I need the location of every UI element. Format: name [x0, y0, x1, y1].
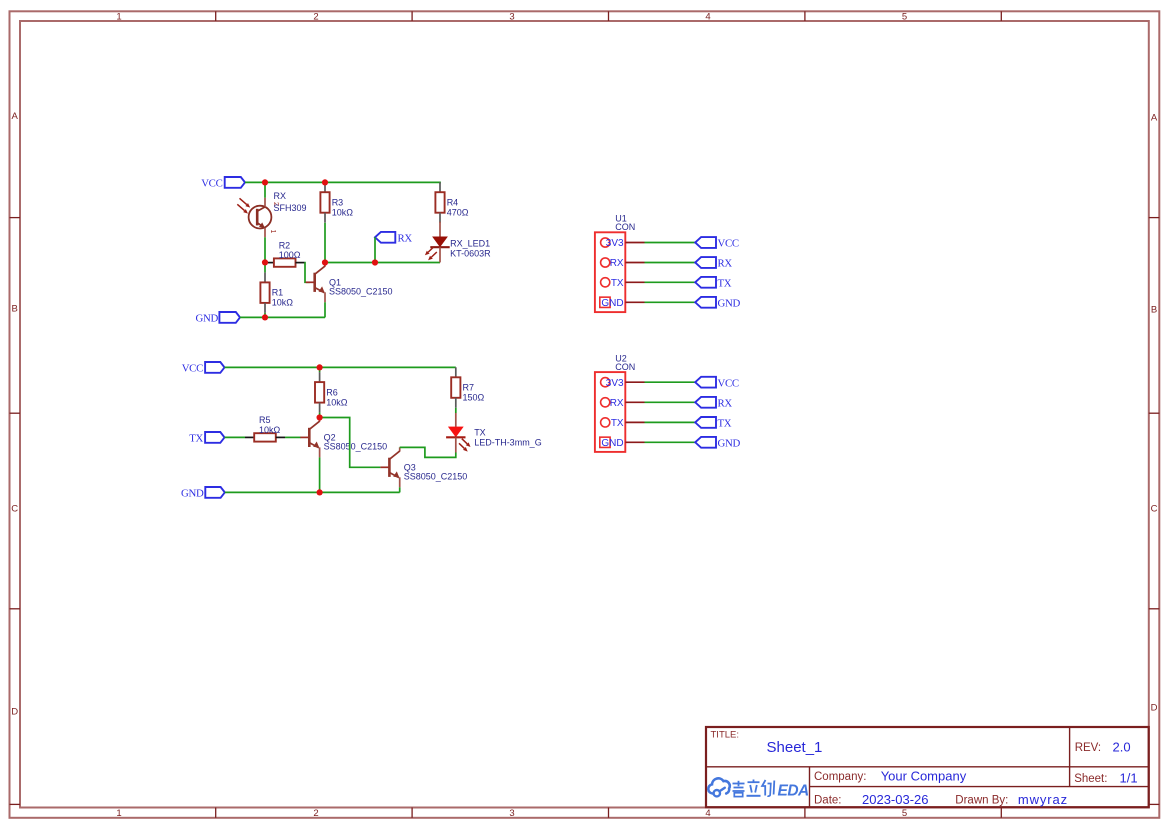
svg-text:A: A — [1151, 113, 1158, 124]
svg-text:LED-TH-3mm_G: LED-TH-3mm_G — [474, 438, 542, 448]
svg-text:mwyraz: mwyraz — [1018, 792, 1068, 807]
svg-text:RX: RX — [274, 191, 287, 201]
transistor Q3 SS8050_C2150 — [380, 447, 467, 487]
svg-text:R7: R7 — [463, 383, 475, 393]
title block TITLE label — [711, 729, 740, 740]
svg-text:2.0: 2.0 — [1113, 739, 1131, 754]
svg-text:D: D — [11, 707, 18, 718]
wire VCC to phototransistor — [264, 182, 266, 197]
svg-text:150Ω: 150Ω — [463, 393, 485, 403]
REV label — [1075, 742, 1101, 754]
JLCEDA logo cloud — [708, 778, 729, 796]
svg-text:A: A — [12, 111, 19, 122]
svg-text:GND: GND — [601, 298, 623, 309]
svg-text:470Ω: 470Ω — [447, 207, 469, 217]
Drawn By label — [955, 795, 1008, 807]
wire node to R1 — [264, 262, 266, 272]
junction dots circuit 2 — [317, 364, 323, 495]
wire TX port to R5 — [225, 436, 246, 438]
wire phototransistor to node — [264, 237, 266, 262]
svg-text:RX: RX — [610, 398, 624, 409]
resistor R2 100 — [265, 240, 305, 266]
port RX (circuit 1) — [375, 232, 412, 245]
svg-text:Date:: Date: — [814, 795, 842, 807]
svg-text:GND: GND — [181, 488, 204, 500]
svg-text:VCC: VCC — [718, 377, 739, 389]
wire R1 to GND rail — [264, 313, 266, 318]
svg-text:10kΩ: 10kΩ — [272, 298, 294, 308]
svg-text:SFH309: SFH309 — [274, 203, 307, 213]
svg-text:GND: GND — [196, 313, 219, 325]
wire U1 pin TX — [645, 281, 696, 283]
svg-text:KT-0603R: KT-0603R — [450, 248, 491, 258]
svg-text:TX: TX — [611, 418, 624, 429]
svg-text:TITLE:: TITLE: — [711, 729, 740, 740]
row letters left — [11, 111, 18, 718]
svg-text:SS8050_C2150: SS8050_C2150 — [404, 472, 468, 482]
Company label — [814, 771, 866, 783]
svg-text:C: C — [11, 504, 18, 515]
wire Q3 emitter to GND — [399, 487, 401, 492]
port VCC (U1 side) — [695, 237, 739, 250]
svg-text:5: 5 — [902, 808, 907, 819]
svg-text:R2: R2 — [279, 240, 291, 250]
svg-text:RX: RX — [398, 232, 413, 244]
port VCC (circuit 1) — [201, 177, 245, 190]
svg-text:R1: R1 — [272, 288, 284, 298]
svg-text:R5: R5 — [259, 415, 271, 425]
svg-text:1/1: 1/1 — [1120, 770, 1138, 785]
transistor Q2 SS8050_C2150 — [300, 417, 387, 457]
svg-text:R3: R3 — [332, 197, 344, 207]
svg-text:1: 1 — [269, 230, 276, 234]
svg-text:1: 1 — [116, 808, 121, 819]
connector U1 CON — [595, 214, 645, 313]
svg-text:5: 5 — [902, 12, 907, 23]
LED TX LED-TH-3mm_G — [446, 408, 542, 453]
svg-text:GND: GND — [601, 438, 623, 449]
wire R3 to Q1 collector — [324, 223, 326, 263]
wire GND rail circuit 1 — [240, 316, 325, 318]
wire RX port stem — [374, 237, 376, 262]
svg-text:B: B — [1151, 305, 1157, 316]
port VCC (circuit 2) — [182, 362, 225, 375]
port GND (circuit 1) — [196, 312, 241, 325]
resistor R4 470 — [435, 182, 468, 223]
svg-text:4: 4 — [705, 12, 710, 23]
svg-text:GND: GND — [718, 437, 741, 449]
row ruler ticks right — [1149, 218, 1160, 805]
Sheet label — [1074, 773, 1107, 785]
svg-text:Sheet:: Sheet: — [1074, 773, 1107, 785]
resistor R1 10k — [260, 272, 293, 313]
wire GND rail circuit 2 — [225, 491, 400, 493]
svg-text:VCC: VCC — [182, 363, 203, 375]
svg-text:SS8050_C2150: SS8050_C2150 — [324, 442, 388, 452]
port VCC (U2 side) — [695, 377, 739, 390]
svg-text:D: D — [1151, 703, 1158, 714]
svg-text:R6: R6 — [326, 387, 338, 397]
svg-text:GND: GND — [718, 297, 741, 309]
resistor R5 10k — [245, 415, 285, 441]
svg-text:CON: CON — [615, 222, 635, 232]
svg-text:TX: TX — [474, 428, 486, 438]
svg-text:VCC: VCC — [201, 178, 222, 190]
wire U2 pin GND — [645, 441, 696, 443]
column numbers top — [116, 12, 907, 23]
transistor Q1 SS8050_C2150 — [306, 262, 393, 302]
wire R2 to Q1 base — [305, 263, 310, 283]
svg-text:TX: TX — [718, 418, 732, 430]
svg-text:Sheet_1: Sheet_1 — [767, 739, 823, 756]
JLCEDA logo EDA text — [778, 783, 810, 800]
port GND (U1 side) — [695, 297, 740, 310]
Company value — [881, 769, 967, 784]
port RX (U1 side) — [695, 257, 732, 270]
svg-text:3V3: 3V3 — [606, 238, 624, 249]
row letters right — [1151, 113, 1158, 714]
svg-text:SS8050_C2150: SS8050_C2150 — [329, 287, 393, 297]
column numbers bottom — [116, 808, 907, 819]
svg-text:2: 2 — [313, 12, 318, 23]
title block dividers — [706, 727, 1149, 807]
wire R5 to Q2 base — [285, 436, 301, 438]
REV value 2.0 — [1113, 739, 1131, 754]
svg-text:1: 1 — [116, 12, 121, 23]
wire VCC rail circuit 1 — [245, 182, 440, 183]
svg-text:EDA: EDA — [778, 783, 810, 800]
svg-text:2023-03-26: 2023-03-26 — [862, 792, 929, 807]
Date label — [814, 795, 842, 807]
svg-text:3: 3 — [509, 12, 514, 23]
svg-text:10kΩ: 10kΩ — [326, 397, 348, 407]
Date value — [862, 792, 929, 807]
svg-text:Company:: Company: — [814, 771, 866, 783]
svg-text:TX: TX — [189, 433, 203, 445]
port TX (circuit 2) — [189, 432, 224, 445]
connector U2 CON — [595, 353, 645, 452]
wire U2 pin VCC — [645, 381, 696, 383]
wire U1 pin GND — [645, 301, 696, 303]
svg-text:10kΩ: 10kΩ — [332, 207, 354, 217]
svg-text:B: B — [12, 304, 18, 315]
svg-text:RX: RX — [610, 258, 624, 269]
svg-text:2: 2 — [313, 808, 318, 819]
svg-text:R4: R4 — [447, 197, 459, 207]
title Sheet_1 — [767, 739, 823, 756]
svg-text:3: 3 — [509, 808, 514, 819]
port TX (U2 side) — [695, 417, 732, 430]
port TX (U1 side) — [695, 277, 732, 290]
svg-text:10kΩ: 10kΩ — [259, 425, 281, 435]
title block outer box — [706, 727, 1149, 807]
resistor R3 10k — [320, 182, 353, 223]
svg-text:CON: CON — [615, 362, 635, 372]
wire U2 pin RX — [645, 401, 696, 403]
wire Q1 emitter to GND — [324, 302, 326, 317]
svg-text:REV:: REV: — [1075, 742, 1101, 754]
Drawn By value — [1018, 792, 1068, 807]
svg-text:TX: TX — [718, 277, 732, 289]
wire U1 pin VCC — [645, 242, 696, 244]
svg-text:4: 4 — [705, 808, 710, 819]
svg-text:RX: RX — [718, 397, 733, 409]
phototransistor RX SFH309 — [237, 191, 306, 237]
wire VCC rail circuit 2 — [225, 366, 456, 368]
wire Q3 collector to LED TX — [400, 447, 456, 457]
JLCEDA logo hanzi strokes — [733, 780, 775, 797]
Sheet value 1/1 — [1120, 770, 1138, 785]
svg-text:RX: RX — [718, 258, 733, 270]
resistor R7 150 — [451, 367, 484, 408]
junction dots circuit 1 — [262, 179, 378, 320]
svg-text:TX: TX — [611, 278, 624, 289]
port GND (U2 side) — [695, 437, 740, 450]
column ruler ticks top — [216, 11, 1002, 21]
row ruler ticks left — [10, 218, 21, 805]
svg-text:Drawn By:: Drawn By: — [955, 795, 1008, 807]
wire R6 to Q2 collector node to Q3 base — [320, 418, 381, 468]
port RX (U2 side) — [695, 397, 732, 410]
wire U1 pin RX — [645, 262, 696, 264]
wire U2 pin TX — [645, 421, 696, 423]
svg-text:3V3: 3V3 — [606, 378, 624, 389]
svg-text:C: C — [1151, 504, 1158, 515]
svg-text:Your Company: Your Company — [881, 769, 967, 784]
wire mid rail to LED — [325, 262, 440, 264]
resistor R6 10k — [315, 367, 348, 417]
LED RX_LED1 KT-0603R — [425, 222, 491, 263]
port GND (circuit 2) — [181, 487, 225, 500]
svg-text:VCC: VCC — [718, 238, 739, 250]
svg-text:RX_LED1: RX_LED1 — [450, 238, 490, 248]
svg-text:100Ω: 100Ω — [279, 250, 301, 260]
wire Q2 emitter to GND — [319, 457, 321, 492]
column ruler ticks bottom — [216, 808, 1002, 818]
